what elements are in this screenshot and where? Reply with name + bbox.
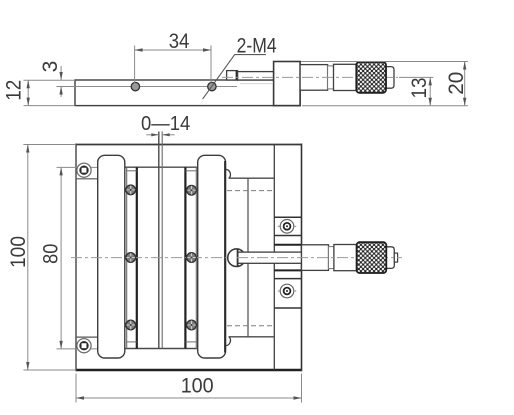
svg-text:2-M4: 2-M4	[237, 34, 277, 57]
ball tip, plan view	[228, 249, 246, 267]
base plate outline, plan view	[76, 144, 302, 146]
svg-text:3: 3	[39, 61, 62, 73]
ball contact flange line	[237, 249, 239, 267]
spindle anvil tip, side view	[227, 71, 238, 80]
center gap line right	[161, 132, 163, 349]
left pocket line upper, plan view	[76, 178, 98, 180]
corner socket screw top-left	[77, 163, 91, 177]
small phillips screw right-bottom	[187, 320, 197, 330]
hidden line upper, plan view	[227, 190, 274, 192]
svg-text:80: 80	[39, 244, 62, 264]
column segment lines, plan view	[274, 216, 301, 218]
platform region top edge, plan view	[229, 177, 275, 179]
label 2-M4 with leader, side view	[203, 55, 266, 100]
centerline of micrometer axis segment A, plan view	[71, 257, 237, 259]
dimension 12, side view	[24, 80, 76, 105]
top plate interface line, side view	[75, 86, 237, 88]
center gap line left (0 mark)	[158, 132, 160, 349]
small phillips screw left-middle	[126, 253, 136, 263]
hidden line lower, plan view	[227, 325, 274, 327]
left pocket line lower, plan view	[76, 336, 98, 338]
left rail strip lines	[126, 167, 128, 348]
carriage bottom edge, plan view	[125, 348, 198, 350]
hidden spindle lower edge, side view	[240, 83, 272, 85]
centerline of micrometer axis, side view	[222, 76, 398, 78]
spindle shaft, plan view	[238, 252, 302, 263]
platform region bottom edge, plan view	[229, 336, 275, 338]
micrometer knurled thimble, plan view	[357, 242, 387, 273]
micrometer end cap, plan view	[386, 247, 394, 269]
dimension 100 bottom, plan view	[76, 374, 302, 403]
micrometer knurled thimble, side view	[356, 62, 386, 93]
small phillips screw right-top	[187, 185, 197, 195]
left clamp bar, plan view	[98, 155, 125, 358]
small phillips screw left-top	[126, 185, 136, 195]
micrometer spindle, side view	[238, 72, 274, 80]
bracket screw lower, plan view	[278, 284, 296, 298]
base plate, side view	[75, 80, 300, 106]
svg-text:20: 20	[445, 72, 468, 95]
dimension 20, side view	[301, 62, 468, 106]
right rail strip lines	[195, 167, 197, 348]
svg-text:0—14: 0—14	[141, 113, 190, 135]
svg-text:12: 12	[2, 80, 25, 101]
spring notch lower on right bar	[226, 337, 231, 346]
micrometer barrel, side view	[334, 64, 357, 90]
micrometer end cap, side view	[386, 67, 394, 89]
svg-text:100: 100	[181, 375, 214, 398]
small phillips screw left-bottom	[126, 320, 136, 330]
micrometer body, side view	[300, 65, 328, 91]
micrometer barrel, plan view	[334, 245, 357, 271]
svg-text:100: 100	[7, 236, 30, 268]
right column edge, plan view	[273, 145, 275, 371]
svg-text:13: 13	[408, 78, 431, 99]
right clamp bar, plan view	[198, 155, 226, 358]
micrometer mount block, side view	[274, 62, 301, 106]
platform inner vertical edge	[247, 178, 249, 337]
svg-text:34: 34	[169, 30, 190, 53]
dimension 13, side view	[302, 77, 468, 105]
dimension 34, side view	[135, 46, 211, 84]
screw (right M4), side view	[208, 82, 216, 90]
centerline of micrometer axis segment B, plan view	[237, 257, 402, 259]
end cap nub, plan view	[394, 253, 397, 262]
spring notch upper on right bar	[226, 169, 231, 178]
small phillips screw right-middle	[187, 253, 197, 263]
micrometer lock ring, side view	[328, 66, 334, 89]
screw (left M4), side view	[131, 82, 139, 90]
dimension 80, plan view	[57, 167, 127, 349]
micrometer body boss, plan view	[302, 245, 329, 271]
carriage top edge, plan view	[125, 166, 198, 168]
bracket screw upper, plan view	[278, 220, 296, 234]
corner socket screw bottom-left	[77, 339, 91, 353]
micrometer lock ring, plan view	[329, 247, 334, 269]
dimension 0-14, plan view	[146, 134, 159, 136]
dimension 3, side view	[57, 66, 76, 97]
dimension 100 left, plan view	[23, 145, 76, 371]
